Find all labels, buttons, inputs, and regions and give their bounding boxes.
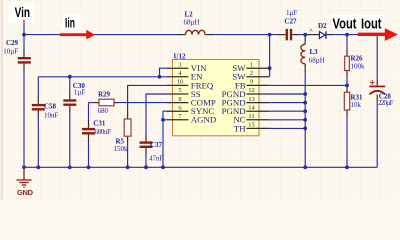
wire L2 to C27 — [213, 34, 278, 36]
svg-text:TH: TH — [234, 123, 246, 133]
junction PGND14 — [303, 109, 307, 113]
svg-text:R29: R29 — [98, 91, 111, 99]
svg-text:C37: C37 — [150, 141, 163, 149]
junction GND C31 — [87, 165, 91, 169]
svg-text:14: 14 — [248, 104, 255, 111]
svg-text:R26: R26 — [351, 55, 364, 63]
svg-text:13: 13 — [248, 96, 255, 103]
pin 14 PGND — [222, 104, 270, 116]
svg-text:8: 8 — [178, 96, 181, 103]
pin 3 VIN — [167, 61, 207, 73]
pin 4 EN — [167, 70, 204, 82]
wire FB net — [269, 84, 347, 86]
wire C28 column — [376, 36, 378, 80]
svg-text:C27: C27 — [284, 17, 297, 25]
junction GND C58 — [36, 165, 40, 169]
pin 1 SW — [232, 61, 269, 73]
svg-text:Iin: Iin — [65, 15, 75, 31]
svg-text:68µH: 68µH — [309, 56, 325, 64]
pin 6 SYNC — [167, 104, 215, 116]
svg-text:10µF: 10µF — [3, 48, 18, 56]
svg-text:3: 3 — [178, 61, 181, 68]
pin 12 PGND — [222, 87, 270, 99]
svg-text:C31: C31 — [93, 119, 106, 127]
svg-text:5: 5 — [178, 87, 181, 94]
resistor R5 — [114, 113, 132, 153]
junction FB divider — [345, 84, 349, 88]
svg-text:C58: C58 — [44, 103, 57, 111]
junction SW pin 1 — [268, 66, 272, 70]
port Vin — [8, 4, 34, 24]
wire NC — [269, 119, 305, 121]
arrow Iout — [358, 28, 398, 41]
wire C37 bottom — [145, 156, 147, 168]
junction node A / L3 tap — [303, 33, 307, 37]
port Iout label — [360, 15, 384, 32]
wire D2 to Vout — [334, 34, 358, 36]
svg-text:1µF: 1µF — [286, 9, 298, 17]
junction Vout divider tap — [345, 33, 349, 37]
junction GND SYNC column — [161, 165, 165, 169]
wire C30 vertical — [69, 77, 71, 92]
junction EN/VIN tie — [158, 75, 162, 79]
junction AGND/SYNC — [161, 118, 165, 122]
op-amp U12 IC body — [173, 60, 260, 136]
pin 2 SW — [232, 70, 269, 82]
wire L3 bottom vertical — [304, 73, 306, 168]
junction TH — [303, 126, 307, 130]
wire C27 to node A — [300, 34, 308, 36]
svg-text:C29: C29 — [6, 39, 19, 47]
pin 5 SS — [167, 87, 201, 99]
junction PGND13 — [303, 101, 307, 105]
pin 10 FREQ — [167, 79, 214, 91]
capacitor C29 — [3, 39, 31, 72]
diode D2 — [307, 22, 334, 39]
svg-text:47nF: 47nF — [149, 155, 164, 163]
junction SW node top rail — [268, 33, 272, 37]
wire SS net — [146, 94, 167, 134]
pin 15 TH — [234, 122, 270, 134]
svg-text:U12: U12 — [174, 52, 187, 60]
svg-text:Iout: Iout — [361, 16, 382, 32]
junction GND C30 — [68, 165, 72, 169]
port Vout label — [331, 15, 358, 32]
svg-text:9: 9 — [250, 79, 253, 86]
svg-text:Vin: Vin — [15, 4, 30, 20]
junction GND C29 — [22, 165, 26, 169]
junction GND C37 — [144, 165, 148, 169]
wire ground rail — [24, 166, 377, 168]
svg-text:11: 11 — [248, 113, 254, 120]
svg-text:220µF: 220µF — [378, 99, 394, 107]
junction Vin top rail — [22, 33, 26, 37]
resistor R29 — [95, 91, 118, 115]
resistor R31 — [344, 87, 363, 117]
svg-text:150k: 150k — [114, 145, 129, 153]
svg-text:D2: D2 — [318, 22, 327, 30]
junction GND R31 — [345, 165, 349, 169]
svg-text:68µH: 68µH — [184, 19, 200, 27]
capacitor C30 — [63, 82, 85, 114]
pin 9 FB — [235, 79, 270, 91]
junction NC — [303, 118, 307, 122]
svg-text:10: 10 — [177, 79, 184, 86]
wire EN to VIN pin jog — [160, 68, 167, 77]
junction GND L3 column — [303, 165, 307, 169]
svg-text:100k: 100k — [351, 62, 366, 70]
capacitor C37 — [140, 134, 164, 163]
svg-text:10nF: 10nF — [44, 112, 59, 120]
wire Vin vertical — [23, 24, 25, 49]
svg-text:1µF: 1µF — [74, 89, 86, 97]
pin 8 COMP — [167, 96, 216, 108]
capacitor C28 polarized — [369, 80, 393, 108]
wire SW vertical — [269, 35, 271, 77]
svg-text:2: 2 — [250, 70, 253, 77]
pin 13 PGND — [222, 96, 270, 108]
wire FREQ net — [128, 85, 167, 112]
svg-text:Vout: Vout — [333, 16, 357, 32]
arrow Iin — [60, 30, 95, 40]
svg-text:L3: L3 — [310, 48, 319, 56]
resistor R26 — [345, 51, 365, 77]
wire EN net horizontal — [38, 76, 166, 78]
svg-text:15: 15 — [248, 122, 255, 129]
wire R5 bottom — [127, 143, 129, 168]
svg-text:1: 1 — [250, 61, 253, 68]
pin 7 AGND — [167, 113, 217, 125]
junction GND R5 — [126, 165, 130, 169]
wire TH — [269, 127, 305, 129]
junction PGND12 — [303, 92, 307, 96]
wire C31 vertical — [88, 103, 90, 120]
wire COMP net — [89, 102, 96, 104]
wire top rail Vin to L2 — [24, 34, 177, 36]
capacitor C31 — [82, 119, 111, 142]
capacitor C27 — [278, 9, 300, 41]
pin 11 NC — [233, 113, 269, 125]
wire C58 vertical — [37, 77, 39, 96]
ground — [17, 167, 32, 187]
wire AGND stub — [163, 119, 167, 121]
inductor L2 — [177, 10, 213, 34]
wire SYNC net — [163, 111, 167, 167]
junction C30 on EN net — [68, 75, 72, 79]
inductor L3 — [301, 35, 325, 72]
wire PGND12 — [269, 93, 305, 95]
port Iin label — [63, 15, 81, 31]
svg-text:680nF: 680nF — [95, 128, 112, 136]
sheet border — [1, 0, 3, 200]
svg-text:A: A — [310, 28, 313, 33]
svg-text:680: 680 — [98, 107, 109, 115]
wire R26 R31 column — [346, 35, 348, 51]
capacitor C58 — [32, 96, 59, 120]
svg-text:10k: 10k — [351, 101, 362, 109]
svg-text:AGND: AGND — [191, 115, 216, 125]
wire PGND13 — [269, 102, 305, 104]
svg-text:GND: GND — [17, 188, 34, 197]
svg-text:L2: L2 — [185, 10, 194, 18]
svg-text:12: 12 — [248, 87, 255, 94]
wire PGND14 — [269, 110, 305, 112]
